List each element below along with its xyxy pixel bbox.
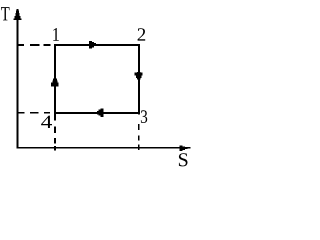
node label 3 [141,110,147,123]
wire: top edge 1-2 (isothermal T1) [54,44,140,46]
arrow right on 1-2 [89,41,96,48]
dashed line: T4 level from axis to node 4 [18,112,54,114]
wire: left edge 4-1 (isentropic) [54,44,56,114]
arrow left on 3-4 [97,109,104,117]
axis label S [179,153,188,166]
dashed line: T1 level from axis to node 1 [18,44,54,46]
dashed line: S3 from node 3 down to S axis tick [138,114,140,152]
node label 4 [41,116,52,128]
T axis arrowhead (up) [14,11,22,21]
wire: bottom edge 3-4 (isothermal T4) [54,112,140,114]
axis label T [1,7,9,20]
dashed line: S4 from node 4 down to S axis tick [54,114,56,152]
S axis arrowhead (right) [180,146,188,151]
node label 1 [53,28,59,41]
axis S (horizontal line) [17,147,190,149]
node label 2 [138,28,146,40]
arrow down on 2-3 [135,72,143,80]
wire: right edge 2-3 (isentropic) [138,44,140,114]
axis T (vertical line) [17,9,19,149]
arrow up on 4-1 [51,79,59,87]
